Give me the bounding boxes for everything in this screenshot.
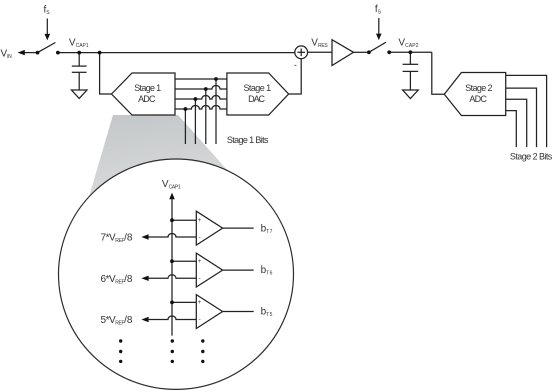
- svg-text:Stage 2 Bits: Stage 2 Bits: [510, 152, 553, 162]
- svg-text:+: +: [198, 217, 202, 224]
- svg-text:Stage 2: Stage 2: [465, 83, 492, 93]
- svg-text:-: -: [199, 234, 201, 241]
- svg-text:-: -: [294, 60, 297, 70]
- svg-text:-: -: [199, 316, 201, 323]
- svg-text:ADC: ADC: [469, 94, 487, 104]
- svg-text:DAC: DAC: [248, 94, 265, 104]
- svg-text:Stage 1 Bits: Stage 1 Bits: [227, 135, 269, 145]
- svg-text:+: +: [198, 299, 202, 306]
- svg-text:+: +: [198, 258, 202, 265]
- svg-text:-: -: [199, 275, 201, 282]
- svg-text:ADC: ADC: [138, 94, 156, 104]
- svg-text:Stage 1: Stage 1: [134, 83, 161, 93]
- svg-text:Stage 1: Stage 1: [244, 83, 272, 93]
